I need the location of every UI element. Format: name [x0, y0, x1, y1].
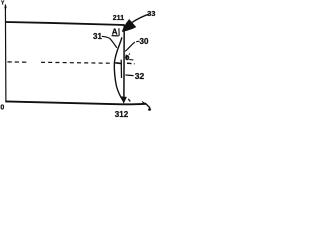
- label 312: [115, 110, 129, 119]
- line 33: [132, 14, 149, 23]
- dashed horizontal reference line (left part): [7, 62, 111, 63]
- label 31: [93, 32, 102, 41]
- label 32: [135, 71, 145, 81]
- X axis arrowhead: [142, 101, 151, 111]
- small component right side: [120, 60, 122, 78]
- Y axis arrowhead: [4, 4, 7, 9]
- label 30: [140, 37, 149, 46]
- arrow 33 head (filled, pointing at A): [122, 19, 137, 32]
- label 33: [147, 9, 155, 18]
- tick under A: [112, 28, 120, 36]
- label 211: [113, 15, 124, 22]
- background: [0, 0, 158, 120]
- ray 211 (horizontal light ray): [6, 22, 125, 25]
- svg-text:312: 312: [115, 110, 129, 119]
- point marker b: [125, 54, 133, 61]
- svg-text:32: 32: [135, 71, 145, 81]
- svg-text:30: 30: [140, 37, 149, 46]
- Y axis label Y: [1, 0, 5, 6]
- dashed horizontal reference line (right part): [127, 62, 135, 65]
- origin label 0: [0, 104, 4, 111]
- Y axis: [4, 5, 7, 103]
- svg-text:211: 211: [113, 15, 124, 22]
- svg-text:31: 31: [93, 32, 102, 41]
- vertical ray from A down to X axis: [123, 25, 125, 97]
- downward arrowhead at X axis: [121, 96, 131, 104]
- svg-text:33: 33: [147, 9, 155, 18]
- leader line for 32: [125, 74, 133, 77]
- svg-text:0: 0: [0, 104, 4, 111]
- mirror curve 31 (left-bowed arc): [114, 37, 123, 100]
- point label A: [112, 28, 118, 37]
- X axis: [5, 101, 146, 104]
- small component bar (top of element): [115, 62, 122, 65]
- leader line for 30: [125, 41, 139, 51]
- leader line for 31: [102, 36, 117, 48]
